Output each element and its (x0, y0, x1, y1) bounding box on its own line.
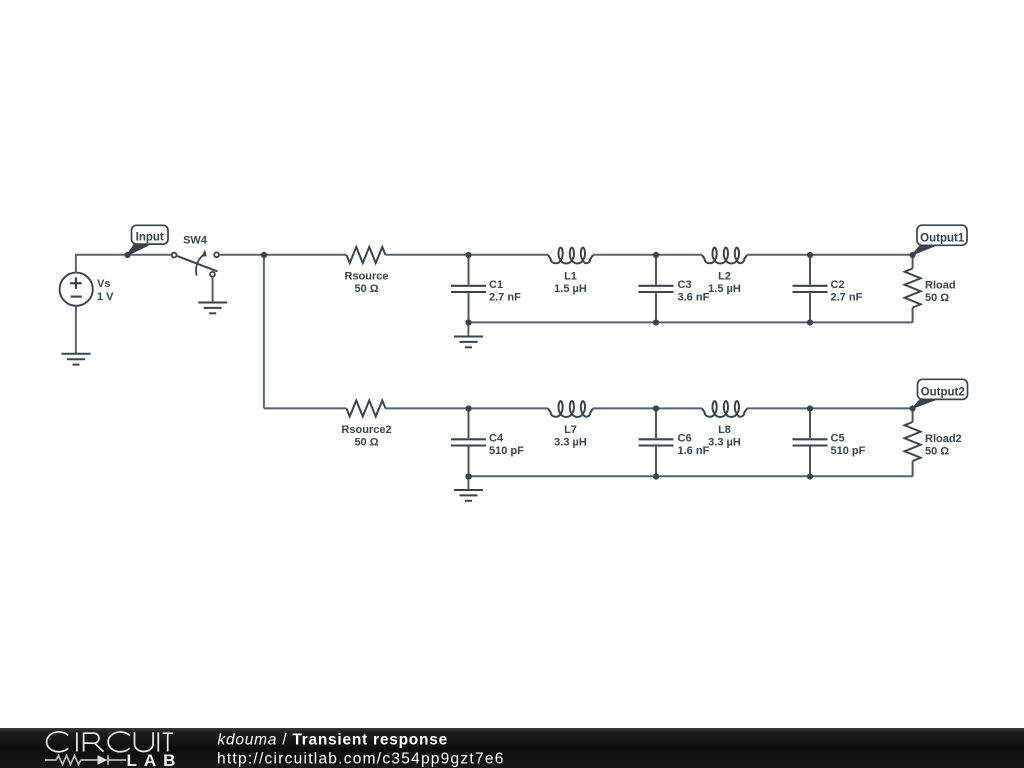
svg-text:3.3 µH: 3.3 µH (554, 437, 587, 449)
node C6 top (653, 405, 659, 411)
svg-text:50 Ω: 50 Ω (354, 437, 378, 449)
wire switch to Rsource (220, 254, 347, 256)
flag Input pointer wedge (128, 245, 149, 255)
label L1 1.5 uH (554, 271, 587, 296)
svg-text:SW4: SW4 (183, 234, 208, 246)
svg-text:L7: L7 (564, 424, 577, 436)
svg-text:Vs: Vs (97, 278, 110, 290)
svg-text:510 pF: 510 pF (489, 445, 524, 457)
resistor Rsource2 (347, 401, 386, 417)
svg-text:510 pF: 510 pF (831, 445, 866, 457)
node Output1 anchor dot (910, 252, 916, 258)
node C5 bottom (807, 473, 813, 479)
label Rsource 50 ohm (344, 271, 388, 296)
node C1 bottom (465, 319, 471, 325)
node C4 bottom (465, 473, 471, 479)
capacitor C4 (451, 409, 486, 477)
wire C1 bottom to ground (467, 322, 469, 336)
label C1 2.7 nF (489, 279, 521, 304)
switch SW4 terminal 2 (214, 252, 219, 257)
label Rload2 50 ohm (925, 433, 962, 458)
wire Vs top to switch (75, 254, 171, 256)
wire Rload top lead (912, 255, 914, 269)
switch SW4 actuator arrow (196, 249, 207, 275)
label L7 3.3 uH (554, 424, 587, 449)
wire Rload2 top lead (912, 409, 914, 423)
ground below C1 (454, 337, 483, 348)
wire Rsource to L1 (386, 254, 549, 256)
label Rload 50 ohm (925, 280, 956, 305)
flag Output2 box (918, 379, 968, 399)
svg-text:kdouma / Transient response: kdouma / Transient response (218, 732, 448, 749)
svg-text:Rsource: Rsource (344, 271, 388, 283)
svg-text:Output2: Output2 (921, 387, 965, 399)
flag Output2 pointer wedge (913, 399, 937, 408)
flag Input box (132, 225, 169, 244)
node C2 bottom (807, 319, 813, 325)
node C6 bottom (653, 473, 659, 479)
wire Vs bottom to ground (75, 306, 77, 354)
wire Rload bottom lead (912, 308, 914, 323)
svg-text:C6: C6 (678, 433, 692, 445)
label L2 1.5 uH (708, 271, 741, 296)
flag Output1 box (917, 225, 967, 245)
capacitor C6 (639, 409, 674, 477)
node Output2 anchor dot (910, 405, 916, 411)
svg-text:Rsource2: Rsource2 (341, 424, 391, 436)
svg-text:http://circuitlab.com/c354pp9g: http://circuitlab.com/c354pp9gzt7e6 (217, 751, 505, 768)
footer black bar (0, 728, 1024, 768)
capacitor C3 (639, 255, 674, 323)
wire L2 to Rload (747, 254, 913, 256)
label L8 3.3 uH (708, 424, 741, 449)
node Input anchor dot (124, 252, 130, 258)
svg-text:C1: C1 (489, 279, 503, 291)
label C4 510 pF (489, 433, 524, 458)
inductor L8 (702, 401, 747, 417)
switch SW4 blade (177, 256, 217, 271)
svg-text:1.5 µH: 1.5 µH (554, 283, 587, 295)
svg-text:3.6 nF: 3.6 nF (678, 292, 710, 304)
svg-text:L2: L2 (718, 271, 731, 283)
label C6 1.6 nF (678, 433, 710, 458)
node C2 top (807, 252, 813, 258)
CircuitLab logo wordmark CIRCUIT (47, 732, 173, 752)
voltage source Vs (60, 273, 93, 306)
label Rsource2 50 ohm (341, 424, 391, 449)
node C3 top (653, 252, 659, 258)
svg-text:C3: C3 (678, 279, 692, 291)
wire Rsource2 to L7 (386, 407, 549, 409)
node C1 top (465, 252, 471, 258)
capacitor C5 (793, 409, 828, 477)
svg-text:1.5 µH: 1.5 µH (708, 283, 741, 295)
svg-text:C2: C2 (831, 279, 845, 291)
wire branch vertical (263, 255, 265, 409)
wire switch terminal3 to ground (212, 277, 214, 303)
svg-text:Rload: Rload (925, 280, 956, 292)
wire Vs top vertical (75, 255, 77, 273)
label C3 3.6 nF (678, 279, 710, 304)
svg-text:C5: C5 (831, 433, 845, 445)
svg-text:50 Ω: 50 Ω (925, 292, 949, 304)
wire Rload2 bottom lead (912, 461, 914, 477)
resistor Rload (905, 269, 921, 308)
ground below SW4 (198, 303, 227, 314)
resistor Rsource (347, 247, 386, 263)
resistor Rload2 (905, 422, 921, 461)
svg-text:2.7 nF: 2.7 nF (831, 292, 863, 304)
wire L7 to L8 (593, 407, 702, 409)
svg-text:3.3 µH: 3.3 µH (708, 437, 741, 449)
wire C4 bottom to ground (467, 476, 469, 490)
switch SW4 terminal 1 (172, 253, 177, 258)
svg-text:C4: C4 (489, 433, 504, 445)
switch SW4 terminal 3 (210, 272, 215, 277)
label C2 2.7 nF (831, 279, 863, 304)
wire bottom rail row2 (468, 475, 912, 477)
inductor L2 (702, 248, 747, 264)
ground below Vs (62, 354, 91, 365)
svg-text:1.6 nF: 1.6 nF (678, 445, 710, 457)
svg-text:L8: L8 (718, 424, 731, 436)
CircuitLab logo resistor-diode symbol (45, 755, 126, 765)
wire L8 to Rload2 (747, 407, 913, 409)
wire L1 to L2 (593, 254, 702, 256)
inductor L1 (548, 248, 593, 264)
svg-text:Rload2: Rload2 (925, 433, 962, 445)
svg-text:Input: Input (136, 231, 164, 243)
node C4 top (465, 405, 471, 411)
capacitor C2 (793, 255, 828, 323)
wire bottom rail row1 (468, 321, 912, 323)
label C5 510 pF (831, 433, 866, 458)
node C3 bottom (653, 319, 659, 325)
svg-text:50 Ω: 50 Ω (925, 446, 949, 458)
ground below C4 (454, 490, 483, 501)
node C5 top (807, 405, 813, 411)
svg-text:2.7 nF: 2.7 nF (489, 292, 521, 304)
node branch junction top (261, 252, 267, 258)
svg-text:50 Ω: 50 Ω (354, 283, 378, 295)
svg-text:Output1: Output1 (920, 232, 965, 244)
inductor L7 (548, 401, 593, 417)
svg-text:1 V: 1 V (97, 291, 114, 303)
label Vs 1 V (97, 278, 114, 303)
svg-text:L1: L1 (564, 271, 577, 283)
wire branch to Rsource2 (264, 407, 347, 409)
capacitor C1 (451, 255, 486, 323)
flag Output1 pointer wedge (913, 245, 937, 255)
svg-text:LAB: LAB (127, 751, 183, 768)
